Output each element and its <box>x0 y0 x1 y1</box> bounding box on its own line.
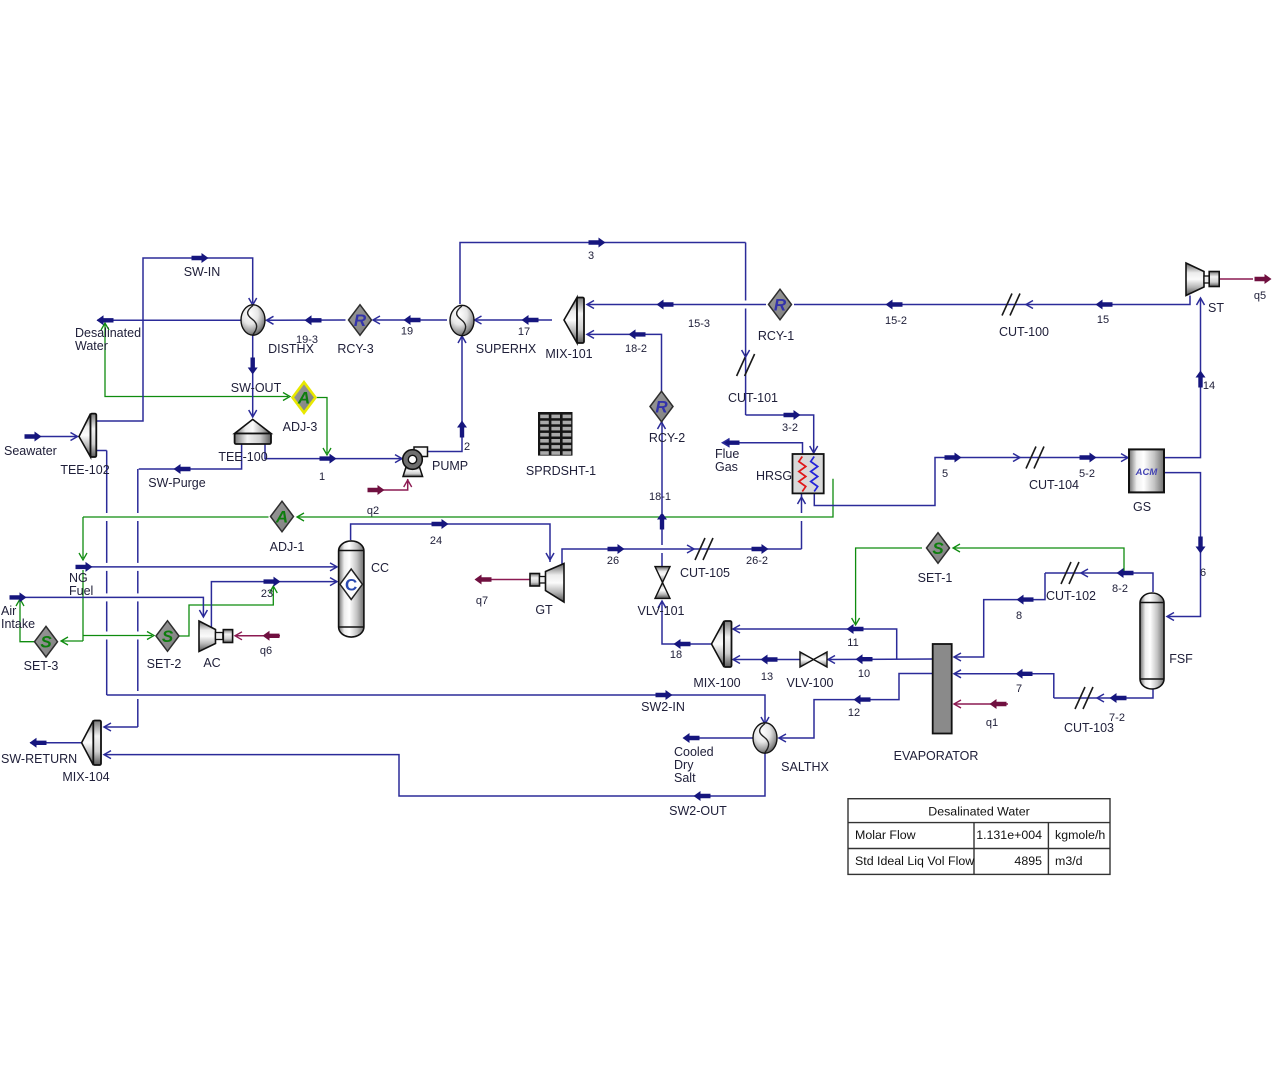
svg-text:Gas: Gas <box>715 460 738 474</box>
svg-text:26-2: 26-2 <box>746 555 768 567</box>
svg-text:6: 6 <box>1200 567 1206 579</box>
svg-text:7: 7 <box>1016 683 1022 695</box>
svg-text:MIX-104: MIX-104 <box>62 770 109 784</box>
svg-text:Intake: Intake <box>1 617 35 631</box>
svg-text:18: 18 <box>670 649 682 661</box>
svg-text:q7: q7 <box>476 595 488 607</box>
svg-text:1: 1 <box>319 471 325 483</box>
svg-text:CUT-102: CUT-102 <box>1046 589 1096 603</box>
svg-text:23: 23 <box>261 588 273 600</box>
svg-text:q5: q5 <box>1254 290 1266 302</box>
svg-text:CUT-101: CUT-101 <box>728 391 778 405</box>
svg-text:19: 19 <box>401 326 413 338</box>
svg-text:26: 26 <box>607 555 619 567</box>
svg-text:Flue: Flue <box>715 447 739 461</box>
svg-text:17: 17 <box>518 326 530 338</box>
svg-text:2: 2 <box>464 441 470 453</box>
svg-text:CUT-104: CUT-104 <box>1029 478 1079 492</box>
svg-text:13: 13 <box>761 671 773 683</box>
svg-text:SET-3: SET-3 <box>24 659 59 673</box>
svg-text:SW-OUT: SW-OUT <box>231 381 282 395</box>
svg-text:R: R <box>354 311 367 330</box>
svg-text:Desalinated: Desalinated <box>75 326 141 340</box>
svg-text:15: 15 <box>1097 314 1109 326</box>
svg-text:m3/d: m3/d <box>1055 854 1083 868</box>
svg-text:SPRDSHT-1: SPRDSHT-1 <box>526 464 596 478</box>
svg-text:10: 10 <box>858 668 870 680</box>
svg-text:SW2-IN: SW2-IN <box>641 700 685 714</box>
svg-text:7-2: 7-2 <box>1109 712 1125 724</box>
svg-text:A: A <box>275 508 288 527</box>
svg-text:RCY-3: RCY-3 <box>337 342 373 356</box>
svg-text:MIX-101: MIX-101 <box>545 347 592 361</box>
svg-text:ACM: ACM <box>1135 467 1159 478</box>
svg-text:Water: Water <box>75 339 108 353</box>
svg-text:19-3: 19-3 <box>296 334 318 346</box>
svg-text:SET-2: SET-2 <box>147 657 182 671</box>
svg-text:TEE-102: TEE-102 <box>60 463 109 477</box>
svg-text:12: 12 <box>848 707 860 719</box>
svg-text:S: S <box>932 539 944 558</box>
svg-text:5: 5 <box>942 468 948 480</box>
svg-text:SW-Purge: SW-Purge <box>148 476 205 490</box>
svg-text:14: 14 <box>1203 380 1215 392</box>
svg-text:FSF: FSF <box>1169 652 1193 666</box>
svg-text:3: 3 <box>588 250 594 262</box>
svg-text:SW2-OUT: SW2-OUT <box>669 804 727 818</box>
svg-text:q6: q6 <box>260 645 272 657</box>
svg-text:SALTHX: SALTHX <box>781 760 829 774</box>
svg-text:S: S <box>40 633 52 652</box>
svg-text:Salt: Salt <box>674 771 696 785</box>
svg-text:Cooled: Cooled <box>674 745 714 759</box>
svg-text:TEE-100: TEE-100 <box>218 450 267 464</box>
svg-text:ST: ST <box>1208 301 1224 315</box>
svg-text:CUT-105: CUT-105 <box>680 566 730 580</box>
svg-text:24: 24 <box>430 535 442 547</box>
svg-text:Seawater: Seawater <box>4 444 57 458</box>
svg-text:SW-IN: SW-IN <box>184 265 221 279</box>
svg-text:MIX-100: MIX-100 <box>693 676 740 690</box>
svg-text:4895: 4895 <box>1014 854 1042 868</box>
svg-text:NG: NG <box>69 571 88 585</box>
svg-text:R: R <box>655 398 668 417</box>
svg-text:Std Ideal Liq Vol Flow: Std Ideal Liq Vol Flow <box>855 854 974 868</box>
svg-text:1.131e+004: 1.131e+004 <box>976 828 1042 842</box>
svg-text:VLV-101: VLV-101 <box>637 604 684 618</box>
svg-text:15-2: 15-2 <box>885 315 907 327</box>
svg-text:18-1: 18-1 <box>649 491 671 503</box>
svg-text:q1: q1 <box>986 717 998 729</box>
svg-text:R: R <box>774 296 787 315</box>
svg-text:EVAPORATOR: EVAPORATOR <box>894 749 979 763</box>
svg-text:GT: GT <box>535 603 553 617</box>
svg-text:kgmole/h: kgmole/h <box>1055 828 1105 842</box>
svg-text:5-2: 5-2 <box>1079 468 1095 480</box>
svg-text:HRSG: HRSG <box>756 469 792 483</box>
svg-text:Dry: Dry <box>674 758 694 772</box>
svg-text:SUPERHX: SUPERHX <box>476 342 537 356</box>
svg-text:VLV-100: VLV-100 <box>786 676 833 690</box>
svg-text:ADJ-3: ADJ-3 <box>283 420 318 434</box>
svg-text:RCY-2: RCY-2 <box>649 431 685 445</box>
svg-text:CUT-100: CUT-100 <box>999 325 1049 339</box>
svg-text:GS: GS <box>1133 500 1151 514</box>
svg-text:Desalinated Water: Desalinated Water <box>928 805 1029 819</box>
svg-text:8-2: 8-2 <box>1112 583 1128 595</box>
svg-text:15-3: 15-3 <box>688 318 710 330</box>
svg-text:ADJ-1: ADJ-1 <box>270 540 305 554</box>
svg-text:SW-RETURN: SW-RETURN <box>1 752 77 766</box>
svg-text:3-2: 3-2 <box>782 422 798 434</box>
svg-text:C: C <box>345 576 357 595</box>
svg-text:Air: Air <box>1 604 16 618</box>
svg-text:Fuel: Fuel <box>69 584 93 598</box>
svg-text:CUT-103: CUT-103 <box>1064 721 1114 735</box>
svg-text:CC: CC <box>371 561 389 575</box>
svg-text:18-2: 18-2 <box>625 343 647 355</box>
svg-text:SET-1: SET-1 <box>918 571 953 585</box>
svg-text:q2: q2 <box>367 505 379 517</box>
svg-text:RCY-1: RCY-1 <box>758 329 794 343</box>
svg-text:11: 11 <box>847 637 858 649</box>
svg-text:PUMP: PUMP <box>432 459 468 473</box>
svg-text:8: 8 <box>1016 610 1022 622</box>
svg-text:AC: AC <box>203 656 220 670</box>
svg-text:Molar Flow: Molar Flow <box>855 828 916 842</box>
svg-text:A: A <box>297 389 310 408</box>
svg-text:S: S <box>162 627 174 646</box>
